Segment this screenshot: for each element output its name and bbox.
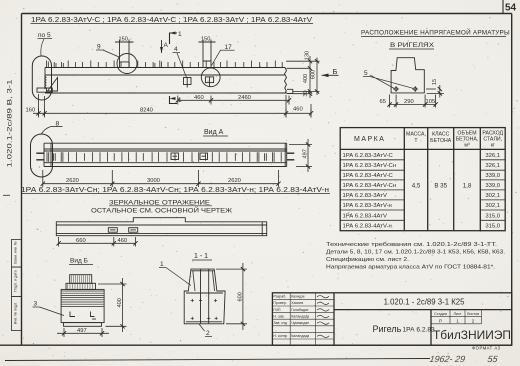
svg-text:МАРКА: МАРКА (354, 136, 385, 143)
prestressed bars in section (393, 86, 418, 92)
svg-text:1: 1 (178, 31, 182, 38)
svg-text:5: 5 (364, 70, 368, 77)
title block stamp (272, 293, 511, 345)
view B dim 400 (98, 278, 127, 332)
svg-text:Ригель: Ригель (373, 324, 402, 334)
svg-text:Вид А: Вид А (204, 129, 224, 136)
svg-text:150: 150 (119, 37, 128, 43)
scan artifact line (5, 359, 430, 361)
svg-text:2460: 2460 (238, 95, 251, 101)
svg-text:Хасиев: Хасиев (291, 301, 303, 305)
embedded part in circle 17 (205, 77, 213, 87)
svg-text:1РА 6.2.83-4АтV-н: 1РА 6.2.83-4АтV-н (343, 224, 392, 230)
svg-text:МАССА,: МАССА, (406, 132, 426, 138)
svg-text:Вид Б: Вид Б (70, 258, 88, 265)
svg-text:Провер.: Провер. (273, 301, 286, 305)
svg-text:Разраб.: Разраб. (273, 295, 286, 299)
svg-text:Спецификацию см. лист 2.: Спецификацию см. лист 2. (326, 257, 409, 263)
plan view dims 660 460 (56, 237, 137, 247)
svg-text:ЗЕРКАЛЬНОЕ ОТРАЖЕНИЕ: ЗЕРКАЛЬНОЕ ОТРАЖЕНИЕ (109, 199, 210, 206)
svg-text:326,1: 326,1 (485, 153, 500, 159)
svg-text:400: 400 (117, 298, 123, 307)
svg-text:КЛАСС: КЛАСС (432, 132, 450, 138)
view A height dim 497 (289, 139, 312, 172)
svg-text:600: 600 (238, 292, 244, 301)
beam right break edge (zigzag) (285, 68, 287, 94)
svg-text:Детали 5, 8, 10, 17 см. 1.020: Детали 5, 8, 10, 17 см. 1.020.1-2с/89 3-… (326, 250, 505, 256)
svg-text:Инв. № подл.: Инв. № подл. (14, 302, 18, 324)
stirrup ticks along beam top (47, 61, 283, 68)
view B arrow (322, 74, 339, 76)
svg-text:кг: кг (491, 143, 495, 149)
embedded plate detail (150) left (115, 40, 134, 68)
svg-text:290: 290 (404, 99, 414, 105)
svg-text:Стадия: Стадия (434, 312, 447, 316)
dim 15 (426, 85, 444, 98)
svg-text:400: 400 (303, 74, 309, 83)
svg-text:497: 497 (77, 328, 87, 334)
svg-text:660: 660 (76, 238, 86, 244)
svg-text:8240: 8240 (140, 108, 153, 114)
section 1-1 rebar marks (191, 299, 218, 320)
arrangement cross-section outline (391, 58, 424, 93)
svg-text:1 - 1: 1 - 1 (194, 253, 208, 260)
view B end elevation (61, 275, 104, 327)
svg-text:3000: 3000 (147, 178, 160, 184)
svg-text:1.020.1-2с/89 В, 3-1: 1.020.1-2с/89 В, 3-1 (7, 79, 14, 168)
section cut mark 1 bottom (170, 96, 178, 104)
svg-text:1,8: 1,8 (463, 182, 472, 189)
svg-text:Каландадз: Каландадз (291, 314, 309, 318)
dimension row 460 2460 (176, 96, 291, 105)
svg-text:Р: Р (439, 318, 442, 323)
stage/sheet mini table (431, 310, 482, 324)
svg-text:Лист: Лист (453, 312, 462, 316)
svg-text:Б: Б (333, 67, 338, 76)
left margin stamp boxes (12, 239, 22, 330)
svg-text:302,1: 302,1 (485, 193, 500, 199)
ledge step at right end (287, 89, 293, 93)
beam top edge (45, 67, 285, 69)
main beam elevation view (45, 68, 287, 94)
svg-text:Н. контр: Н. контр (273, 334, 287, 338)
svg-text:Чумакидзе: Чумакидзе (291, 321, 309, 325)
right end vertical dimensions 130 400 30 600 (286, 56, 320, 98)
svg-text:1РА 6.2.83-3АтV-С ; 1РА 6.2.8: 1РА 6.2.83-3АтV-С ; 1РА 6.2.83-4АтV-С ; … (31, 17, 312, 24)
view B streak shading (68, 275, 93, 289)
stirrup dashes in view A (47, 152, 281, 162)
svg-text:Н. зав.: Н. зав. (273, 314, 284, 318)
svg-text:460: 460 (194, 95, 204, 101)
svg-text:ТбилЗНИИЭП: ТбилЗНИИЭП (433, 328, 511, 342)
svg-text:Листов: Листов (467, 312, 479, 316)
section cut mark 1 top (170, 33, 178, 44)
svg-text:15: 15 (432, 79, 438, 85)
svg-text:2: 2 (472, 318, 475, 323)
fold mark (3, 194, 10, 196)
svg-text:Взам. инв. №: Взам. инв. № (14, 241, 18, 263)
svg-text:1РА 6.2.83-3АтV: 1РА 6.2.83-3АтV (343, 193, 387, 199)
section 1-1 dim 600 (216, 263, 247, 330)
view B anchor marks (70, 312, 96, 320)
callout circle detail 9 (117, 54, 137, 74)
beam bottom edge (45, 92, 287, 94)
svg-text:1РА 6.2.83-4АтV-Сн: 1РА 6.2.83-4АтV-Сн (343, 183, 397, 189)
beam flange line (45, 74, 285, 76)
svg-text:315,0: 315,0 (485, 224, 500, 230)
svg-text:1962- 29: 1962- 29 (429, 354, 466, 364)
svg-text:Каландадз: Каландадз (291, 334, 309, 338)
embedded squares mid view A (171, 153, 208, 160)
svg-text:В РИГЕЛЯХ: В РИГЕЛЯХ (390, 42, 435, 49)
svg-text:Подп. и дата: Подп. и дата (14, 270, 18, 291)
support ledge plate at left end (37, 88, 52, 92)
beam left end edge (44, 68, 46, 89)
embedded plate detail (150) right (199, 40, 216, 68)
svg-text:150: 150 (201, 37, 210, 43)
svg-text:1.020.1 - 2с/89 3-1 К25: 1.020.1 - 2с/89 3-1 К25 (384, 298, 465, 307)
view A arrow (161, 40, 163, 53)
svg-text:4: 4 (174, 46, 178, 53)
handwritten archive numbers (429, 354, 499, 364)
svg-text:1: 1 (160, 261, 164, 268)
svg-text:600: 600 (311, 70, 317, 79)
svg-text:30: 30 (303, 90, 309, 96)
svg-text:4,5: 4,5 (412, 182, 421, 189)
svg-text:54: 54 (505, 3, 517, 14)
svg-text:ФОРМАТ А3: ФОРМАТ А3 (472, 346, 501, 351)
svg-text:1РА 6.2.83-4АтV: 1РА 6.2.83-4АтV (343, 213, 387, 219)
svg-text:1РА 6.2.83-3АтV-Сн: 1РА 6.2.83-3АтV-Сн (343, 163, 397, 169)
section 1-1 outline (184, 269, 225, 324)
svg-text:Кахидзе: Кахидзе (291, 295, 305, 299)
view A beam body (44, 143, 287, 166)
svg-text:1РА 6.2.83: 1РА 6.2.83 (403, 327, 436, 334)
svg-text:2620: 2620 (66, 178, 79, 184)
svg-text:105: 105 (426, 99, 436, 105)
svg-text:Технические требования см. 1: Технические требования см. 1.020.1-2с/89… (326, 242, 498, 248)
svg-text:339,0: 339,0 (485, 183, 500, 189)
svg-text:по 5: по 5 (38, 32, 51, 39)
svg-text:9: 9 (97, 44, 101, 51)
specification table (340, 128, 505, 231)
svg-text:А: А (164, 42, 169, 49)
dimension row 160 8240 460 (33, 95, 313, 118)
svg-text:В 35: В 35 (434, 182, 447, 189)
page number box 54 (502, 0, 504, 14)
balloon oval around left beam end (32, 56, 51, 100)
svg-text:ОСТАЛЬНОЕ СМ. ОСНОВНОЙ ЧЕРТ: ОСТАЛЬНОЕ СМ. ОСНОВНОЙ ЧЕРТЕЖ (91, 205, 232, 214)
balloon oval view A left end (31, 134, 53, 177)
svg-text:497: 497 (303, 149, 309, 158)
svg-text:1РА 6.2.83-4АтV-С: 1РА 6.2.83-4АтV-С (343, 173, 394, 179)
callout circle detail 17 (201, 68, 220, 87)
svg-text:326,1: 326,1 (485, 163, 500, 169)
svg-text:2: 2 (206, 330, 210, 337)
svg-text:БЕТОНА: БЕТОНА (430, 138, 452, 144)
oval stem lines below (39, 94, 45, 116)
svg-text:1РА 6.2.83-3АтV-н: 1РА 6.2.83-3АтV-н (343, 203, 392, 209)
svg-text:65: 65 (380, 99, 386, 105)
arrangement dims 65 290 105 (387, 95, 437, 108)
svg-text:1РА 6.2.83-3АтV-С: 1РА 6.2.83-3АтV-С (343, 153, 394, 159)
svg-text:1РА 6.2.83-3АтV-Сн; 1РА 6.2.83: 1РА 6.2.83-3АтV-Сн; 1РА 6.2.83-4АтV-Сн; … (21, 187, 329, 194)
svg-text:1: 1 (456, 318, 459, 323)
svg-text:м³: м³ (464, 143, 470, 149)
svg-text:315,0: 315,0 (485, 213, 500, 219)
svg-text:460: 460 (118, 238, 128, 244)
gusset triangle at left end (48, 78, 58, 92)
svg-text:Напрягаемая арматура класса: Напрягаемая арматура класса АтV по ГОСТ … (326, 265, 495, 271)
weld serration on left end (45, 76, 47, 89)
svg-text:130: 130 (305, 51, 311, 60)
svg-text:160: 160 (26, 108, 36, 114)
svg-text:339,0: 339,0 (485, 173, 500, 179)
strand stubs right end (287, 153, 295, 160)
svg-text:460: 460 (293, 107, 303, 113)
view A dimension row 2620 3000 2620 (41, 170, 281, 187)
svg-text:ГИП: ГИП (273, 308, 281, 312)
svg-text:2620: 2620 (228, 178, 241, 184)
view B horizontal hatch (62, 291, 104, 306)
svg-text:302,1: 302,1 (485, 203, 500, 209)
plan view of beam (56, 218, 266, 236)
svg-text:РАСПОЛОЖЕНИЕ НАПРЯГАЕМОЙ АРМ: РАСПОЛОЖЕНИЕ НАПРЯГАЕМОЙ АРМАТУРЫ (361, 28, 510, 37)
svg-text:3: 3 (34, 301, 38, 308)
view B dim 497 (57, 328, 109, 337)
svg-text:Зав. отд: Зав. отд (273, 321, 288, 325)
strand stubs left end (36, 153, 44, 160)
svg-text:Голябадзе: Голябадзе (291, 308, 308, 312)
